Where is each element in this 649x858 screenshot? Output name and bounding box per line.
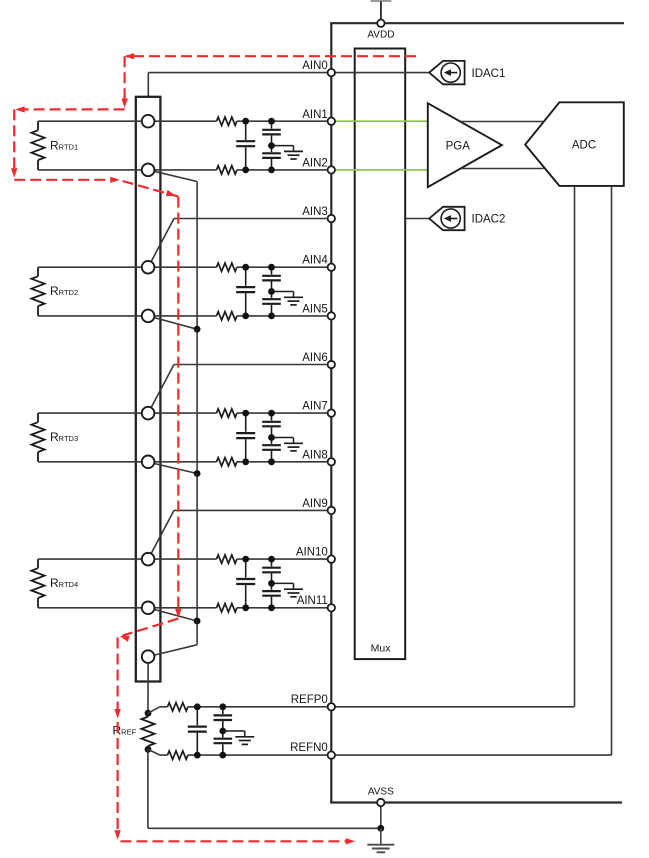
terminal 6 [142,456,155,469]
wire series resistor to AIN pin (bottom) [237,461,329,463]
series resistor (bottom line) [217,604,237,613]
svg-text:AIN2: AIN2 [302,157,328,169]
pin AIN1 [328,118,335,125]
terminal 3 [142,261,155,274]
pin REFP0 [328,703,335,710]
common-mode capacitor (top) [271,121,273,128]
pin AIN2 [328,166,335,173]
svg-text:REFN0: REFN0 [290,742,328,754]
current source IDAC1 [429,61,464,84]
IDAC1 current path down to ground rail (upper) [116,638,118,712]
wire AVSS pin to ground node [380,806,382,825]
svg-text:AIN3: AIN3 [302,206,328,218]
series resistor (top line) [217,117,237,126]
wire return bus (terminal 2 diagonal) [154,171,197,181]
IDAC1 current path down left of terminal block [123,56,125,100]
node return bus junction [194,326,201,333]
svg-text:AIN0: AIN0 [302,60,328,72]
common-mode capacitor (bottom) [271,146,273,152]
wire RTD2 bottom lead [38,315,142,317]
series resistor (bottom line) [217,312,237,320]
svg-text:AIN10: AIN10 [296,547,328,559]
wire terminal to series resistor (bottom) [154,461,216,463]
series resistor (bottom line) [217,166,237,174]
pin AVSS [377,799,384,806]
wire PGA to ADC (top) [461,121,543,123]
wire terminal to series resistor (bottom) [154,169,216,171]
common-mode capacitor (REFN0) [222,731,224,737]
wire PGA to ADC (bottom) [461,168,544,170]
wire series resistor to AIN pin (bottom) [237,315,329,317]
wire RTD4 bottom lead [38,607,142,609]
wire terminal to series resistor (top) [154,412,216,414]
svg-text:AIN7: AIN7 [302,401,328,413]
common-mode capacitor (bottom) [271,292,273,298]
differential capacitor [245,559,247,578]
node R_REF bottom [145,746,152,753]
terminal 5 [142,407,155,420]
ground (filter) [272,582,294,584]
node reference capacitor midpoint [219,728,226,735]
AVDD supply symbol [371,0,392,2]
terminal 4 [142,310,155,323]
series resistor (top line) [217,263,237,271]
terminal 8 [142,602,155,615]
common-mode capacitor (top) [271,413,273,420]
node return bus junction [194,618,201,625]
differential capacitor [245,121,247,140]
svg-text:AIN8: AIN8 [302,449,328,461]
wire terminal to series resistor (bottom) [154,607,216,609]
ADC chip boundary (left edge, top AVDD rail, bottom AVSS rail) [330,23,332,802]
resistor R_RTD1 [37,121,39,130]
resistor R_RTD4 [37,559,39,568]
wire terminal to series resistor (top) [154,266,216,268]
pin AIN4 [328,264,335,271]
svg-text:ADC: ADC [572,140,596,152]
svg-text:AIN6: AIN6 [302,352,328,364]
svg-text:AIN4: AIN4 [302,255,328,267]
terminal 1 [142,115,155,128]
wire AIN0 to IDAC1 [148,72,429,74]
wire RTD2 top lead [38,266,142,268]
wire Mux to IDAC2 [405,218,429,220]
node return bus junction [194,470,201,477]
wire ADC reference (to REFP0) [574,186,576,707]
wire REFP0 line [188,706,575,708]
svg-text:AIN9: AIN9 [302,498,328,510]
node capacitor midpoint [268,142,275,149]
pin AIN5 [328,312,335,319]
wire terminal to series resistor (top) [154,120,216,122]
ground (filter) [272,291,294,293]
common-mode capacitor (top) [271,559,273,566]
wire RTD4 top lead [38,558,142,560]
terminal 9 [142,650,155,663]
IDAC1 current path (dashed) top horizontal [126,55,416,57]
wire AIN9 excitation to terminal [174,509,329,511]
node system ground [377,825,384,832]
pin AIN7 [328,409,335,416]
pin AIN11 [328,604,335,611]
wire AIN3 excitation to terminal [174,218,329,220]
wire REFN0 line [188,754,612,756]
IDAC1 current path right below RTD1 [14,179,112,181]
ground (system) [380,828,382,844]
wire RTD3 top lead [38,412,142,414]
wire R_REF bottom to REFN0 filter [148,749,160,755]
wire RTD1 bottom lead [38,169,142,171]
terminal 7 [142,553,155,566]
wire terminal to series resistor (top) [154,558,216,560]
wire RTD3 bottom lead [38,461,142,463]
multiplexer Mux [355,49,406,660]
pin AIN9 [328,507,335,514]
ground (reference filter) [223,730,245,732]
node capacitor midpoint [268,288,275,295]
series resistor (top line) [217,409,237,417]
common-mode capacitor (bottom) [271,583,273,589]
IDAC1 current path diagonal into terminal block [123,181,179,197]
wire series resistor to AIN pin (top) [237,558,329,560]
wire terminal to series resistor (bottom) [154,315,216,317]
wire series resistor to AIN pin (top) [237,412,329,414]
green signal path AIN1 to PGA [335,120,428,122]
series resistor (REFP0) [168,703,188,711]
green signal path AIN2 to PGA [335,169,428,171]
ground (filter) [272,145,294,147]
wire series resistor to AIN pin (bottom) [237,607,329,609]
node R_REF top [145,710,152,717]
wire R_REF bottom to ground node [147,749,149,828]
svg-text:Mux: Mux [371,643,392,655]
series resistor (top line) [217,555,237,563]
svg-text:AIN1: AIN1 [302,109,328,121]
svg-text:IDAC2: IDAC2 [472,214,506,226]
pin REFN0 [328,751,335,758]
IDAC1 current path diagonal to R_REF branch [123,619,179,636]
resistor R_RTD3 [37,413,39,422]
svg-text:IDAC1: IDAC1 [472,68,506,80]
resistor R_REF [141,717,154,746]
svg-text:AIN5: AIN5 [302,303,328,315]
wire RTD1 top lead [38,120,142,122]
terminal 2 [142,164,155,177]
node capacitor midpoint [268,580,275,587]
wire series resistor to AIN pin (top) [237,266,329,268]
common-mode capacitor (top) [271,267,273,274]
IDAC1 current path to system ground [121,840,348,842]
svg-text:AIN11: AIN11 [297,595,328,607]
wire return bus to terminal 9 [154,645,197,655]
pin AVDD [377,20,384,27]
wire ADC reference (to REFN0) [611,186,613,755]
wire series resistor to AIN pin (top) [237,120,329,122]
wire R_REF top to REFP0 filter [148,707,160,713]
svg-text:AVSS: AVSS [368,787,394,798]
node capacitor midpoint [268,434,275,441]
wire terminal 9 to R_REF [147,663,149,713]
common-mode capacitor (REFP0) [222,707,224,714]
ground (filter) [272,437,294,439]
svg-text:AVDD: AVDD [367,29,394,40]
series resistor (REFN0) [168,751,188,759]
svg-text:PGA: PGA [446,140,471,152]
wire AIN6 excitation to terminal [174,364,329,366]
pin AIN8 [328,458,335,465]
op-amp PGA [428,103,502,187]
wire terminal to return bus [154,464,197,474]
common-mode capacitor (bottom) [271,438,273,444]
resistor R_RTD2 [37,267,39,276]
differential capacitor [245,413,247,432]
IDAC1 current path down through terminal block [177,197,179,611]
differential capacitor [245,267,247,286]
wire terminal to return bus [154,318,197,330]
differential capacitor (reference) [196,707,198,725]
ADC core [525,102,624,186]
pin AIN10 [328,555,335,562]
terminal block [136,97,161,682]
IDAC1 current path down to ground rail (lower) [116,722,118,832]
current source IDAC2 [429,207,464,230]
wire return bus vertical [196,182,198,645]
svg-text:REFP0: REFP0 [291,694,328,706]
pin AIN0 [328,69,335,76]
IDAC1 current path left toward RTD1 [17,108,125,110]
IDAC1 current path down left of RTD1 [13,109,15,170]
wire AIN0 down to terminal 1 [147,73,149,115]
pin AIN6 [328,361,335,368]
wire terminal to return bus [154,610,197,622]
pin AIN3 [328,215,335,222]
series resistor (bottom line) [217,458,237,466]
wire series resistor to AIN pin (bottom) [237,169,329,171]
